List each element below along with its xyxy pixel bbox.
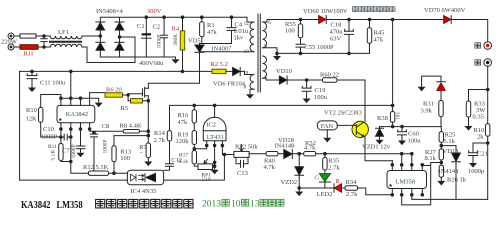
svg-text:C18: C18 [331, 22, 342, 29]
svg-text:220W: 220W [1, 39, 18, 46]
svg-text:1000P: 1000P [157, 34, 163, 48]
svg-text:IC4 4N35: IC4 4N35 [131, 188, 157, 195]
wire pin3 bottom rail [412, 195, 488, 200]
resistor R10 feedback [39, 107, 43, 122]
optocoupler IC4 4N35 [127, 170, 163, 184]
node 220V input terminal bottom [8, 44, 14, 50]
wire regulated node [380, 126, 442, 128]
ground primary [172, 57, 180, 64]
ground R26 [437, 179, 445, 186]
transistor VT2 [352, 121, 368, 137]
wire snubber bottom [200, 44, 232, 46]
resistor R33 [466, 101, 470, 117]
svg-text:400V68u: 400V68u [139, 60, 164, 67]
node 220V input terminal top [8, 33, 14, 39]
wire Vcc rail [20, 70, 212, 72]
svg-text:IC2: IC2 [206, 121, 216, 128]
svg-text:VD60 10W100V: VD60 10W100V [303, 8, 348, 15]
wire 300V bus to pin 12 [247, 17, 254, 22]
svg-text:63V: 63V [330, 36, 342, 43]
wire secondary top rail [267, 20, 488, 42]
svg-text:101: 101 [396, 112, 402, 121]
ground C60 [398, 138, 406, 145]
svg-text:R34: R34 [346, 179, 358, 186]
resistor R55 [300, 20, 302, 24]
diode bridge D2 [115, 21, 124, 23]
svg-text:LM358: LM358 [396, 179, 416, 186]
resistor R1 [201, 17, 203, 43]
resistor R45 [369, 20, 371, 28]
label chi chinese [475, 60, 481, 65]
svg-text:KA3842: KA3842 [21, 200, 51, 211]
wire Vcc riser to pin2 [70, 71, 72, 98]
caption date chinese yue [241, 199, 248, 206]
svg-text:120k: 120k [176, 138, 190, 145]
svg-text:LM358: LM358 [57, 200, 83, 211]
caption date chinese ri hui zhi [260, 199, 284, 206]
svg-text:G: G [315, 175, 320, 182]
wire VD10 to R60 [287, 79, 322, 81]
ground VZD2 [295, 189, 303, 196]
caption date chinese nian [222, 199, 229, 206]
ground VZD1 [376, 138, 384, 145]
pin KA3842 bottom pins [61, 123, 90, 129]
svg-text:VD6 FR104: VD6 FR104 [213, 81, 246, 88]
svg-text:100: 100 [285, 28, 295, 35]
diode bridge D4 [115, 41, 124, 43]
capacitor C8 [91, 133, 98, 175]
svg-text:4.7k: 4.7k [304, 145, 316, 152]
ground C19 [303, 96, 311, 103]
svg-text:1000P: 1000P [71, 144, 77, 158]
resistor R17 [193, 145, 195, 151]
svg-text:R17: R17 [179, 153, 188, 159]
svg-text:R4: R4 [172, 26, 180, 33]
ground R7 [144, 159, 152, 166]
wire gate node [123, 94, 129, 101]
svg-text:9: 9 [246, 70, 249, 76]
resistor R13 [113, 136, 115, 146]
svg-text:R11: R11 [48, 144, 57, 150]
potentiometer RP2 [234, 151, 249, 157]
resistor R7 [147, 131, 149, 143]
svg-text:12K: 12K [26, 116, 38, 123]
svg-text:IN4007: IN4007 [212, 45, 233, 52]
diode VD5 [195, 44, 204, 46]
wire LF1 to bridge AC2 [82, 37, 135, 63]
wire TL431 anode to ground [214, 146, 216, 168]
svg-text:4.7k: 4.7k [264, 164, 276, 171]
svg-text:R26 1k: R26 1k [447, 177, 467, 184]
svg-text:5.1K: 5.1K [51, 150, 57, 161]
wire pin4 to R8 row [90, 129, 124, 131]
svg-text:1000P: 1000P [41, 134, 58, 141]
op-amp U3 LM358 box [387, 171, 427, 189]
ground R33 [465, 124, 473, 131]
svg-text:C8: C8 [102, 123, 110, 130]
ground transformer pin 8 [246, 92, 254, 99]
wire R33 branch [469, 90, 488, 102]
node battery negative terminal [484, 59, 492, 67]
inductor LF1 core [50, 41, 81, 43]
ground C21 [469, 161, 477, 168]
wire B+ riser [392, 20, 394, 112]
resistor R14 [167, 131, 171, 141]
svg-text:C10: C10 [43, 126, 54, 133]
svg-text:IN5408×4: IN5408×4 [96, 8, 124, 15]
svg-text:C13: C13 [237, 170, 248, 177]
ground C7 [77, 151, 85, 158]
ground FAN [323, 136, 331, 143]
fuse F1 [20, 34, 36, 38]
svg-text:2.7k: 2.7k [154, 137, 166, 144]
capacitor C7 [76, 129, 85, 151]
wire C21 branch [473, 143, 488, 152]
svg-text:2.7k: 2.7k [328, 164, 340, 171]
wire secondary ground rail [277, 52, 370, 54]
wire pin 6 to secondary top rail [263, 20, 268, 23]
resistor R12 [89, 171, 109, 175]
resistor R26 [439, 165, 443, 177]
svg-text:5.1k: 5.1k [444, 138, 456, 145]
pin LM358 bottom pins [392, 189, 422, 195]
capacitor C60 [398, 127, 407, 139]
ground secondary [273, 54, 281, 61]
svg-text:8: 8 [244, 85, 247, 91]
svg-text:0.35: 0.35 [473, 114, 484, 121]
capacitor C12 [166, 164, 174, 167]
diode VD10 [279, 76, 286, 84]
svg-text:R: R [335, 178, 340, 185]
wire feedback node vertical x168 [164, 105, 393, 170]
capacitor C2 [161, 17, 168, 57]
capacitor C4 [227, 17, 236, 43]
wire input top [14, 35, 47, 37]
capacitor X-cap across line [41, 36, 47, 47]
diode VD70 [444, 16, 451, 24]
diode VD6 [233, 68, 240, 76]
pin LM358 top pins [392, 154, 422, 171]
ground TL431 [211, 168, 219, 175]
svg-text:2.7k: 2.7k [346, 191, 358, 198]
wire R6 to gate node [123, 94, 129, 96]
capacitor C19 [302, 80, 311, 96]
capacitor C11 [27, 71, 37, 85]
wire bottom feedback rail [20, 155, 225, 181]
diode VD18 [284, 150, 292, 159]
wire R60 to VT2 collector [337, 80, 365, 121]
wire input bottom [14, 46, 47, 48]
svg-text:13: 13 [250, 200, 260, 210]
diode VD13 [441, 146, 456, 153]
ground C11 [28, 85, 36, 92]
resistor R5 [131, 99, 143, 103]
svg-text:VD70 6W400V: VD70 6W400V [424, 7, 466, 14]
svg-text:R8 4.4K: R8 4.4K [120, 122, 142, 129]
svg-text:470u: 470u [330, 29, 344, 36]
svg-text:VT2 2SC2383: VT2 2SC2383 [324, 109, 362, 116]
pin TL431 legs [207, 141, 223, 146]
resistor R40 [266, 152, 278, 156]
svg-text:8.1k: 8.1k [425, 155, 437, 162]
transistor Q1 MOSFET [128, 87, 148, 132]
resistor R60 [323, 78, 338, 82]
svg-text:LT431: LT431 [207, 134, 224, 141]
svg-text:C55 1000P: C55 1000P [305, 44, 334, 51]
svg-text:100u: 100u [408, 137, 422, 144]
svg-text:2013: 2013 [202, 200, 221, 210]
svg-text:9.1k: 9.1k [179, 159, 189, 165]
svg-text:300V: 300V [147, 8, 162, 15]
svg-text:LF1: LF1 [58, 29, 69, 36]
resistor R38 [390, 112, 394, 123]
svg-text:6: 6 [268, 20, 271, 26]
diode VZD2 zener [298, 154, 300, 167]
capacitor C55 [296, 38, 305, 54]
svg-text:VZD1 12v: VZD1 12v [362, 143, 391, 150]
wire bridge left bottom [99, 50, 101, 57]
svg-text:47k: 47k [207, 29, 218, 36]
resistor R34 [345, 186, 358, 190]
wire R12 row [71, 162, 89, 174]
resistor R27 [439, 149, 443, 160]
resistor RJ1 [20, 45, 38, 50]
capacitor C1 [145, 17, 147, 57]
capacitor C21 [469, 151, 478, 161]
capacitor C18 [345, 20, 354, 54]
resistor R4 [182, 17, 184, 71]
svg-text:3.9k: 3.9k [421, 108, 433, 115]
wire VD5 to pin10 and drain riser [148, 52, 254, 89]
svg-text:VZD2: VZD2 [281, 179, 298, 186]
inductor LF1 top winding [47, 36, 82, 39]
wire TL431 ref to divider [194, 146, 206, 149]
wire battery negative down [487, 66, 489, 123]
wire LED row [299, 187, 334, 189]
svg-text:360K: 360K [173, 34, 179, 46]
svg-text:12: 12 [244, 21, 250, 27]
svg-text:1000P: 1000P [102, 139, 108, 153]
wire pin 5 to ground node [263, 48, 278, 54]
wire bridge left mid [99, 30, 101, 42]
transformer T1 primary lower winding [250, 75, 254, 90]
resistor R8 [123, 130, 140, 134]
svg-text:1000p: 1000p [468, 168, 484, 175]
wire TL431 cathode riser [214, 105, 216, 117]
transformer T1 secondary lower winding [263, 56, 267, 78]
svg-text:100u: 100u [314, 94, 328, 101]
svg-text:C19: C19 [315, 87, 326, 94]
svg-text:100: 100 [120, 155, 130, 162]
diode bridge D1 [96, 21, 105, 23]
wire LF1 to bridge AC1 [82, 35, 100, 37]
resistor R10 secondary [486, 124, 490, 137]
svg-text:2k: 2k [477, 134, 484, 141]
transformer T1 core [258, 14, 260, 92]
svg-text:RJ1: RJ1 [24, 51, 34, 58]
transformer T1 secondary upper winding [263, 22, 267, 48]
svg-text:VD10: VD10 [276, 68, 292, 75]
resistor R31 [440, 90, 442, 100]
inductor LF1 bottom winding [47, 44, 82, 47]
capacitor C13 [236, 157, 248, 167]
svg-text:C21: C21 [477, 151, 488, 158]
diode VZD3 red zener [437, 83, 445, 90]
svg-text:R31: R31 [423, 101, 434, 108]
wire pin4 top loop [402, 163, 442, 205]
svg-text:R2 5.2: R2 5.2 [211, 61, 228, 68]
ground KA3842 pin [95, 100, 103, 107]
LED LED2 green [319, 174, 330, 182]
capacitor C10 [61, 129, 71, 140]
wire LED control rail [304, 153, 412, 155]
svg-text:5: 5 [264, 43, 267, 49]
wire pin2 column down [70, 129, 72, 162]
svg-text:47k: 47k [178, 119, 189, 126]
wire bridge top rail 300V [100, 17, 247, 22]
wire RP2 to R40 [249, 153, 266, 155]
svg-text:R10: R10 [26, 107, 37, 114]
wire R10 top [41, 95, 61, 108]
wire FAN to base [337, 124, 356, 126]
resistor R19 [193, 123, 195, 131]
svg-text:R5: R5 [121, 105, 129, 112]
svg-text:C1: C1 [137, 23, 145, 30]
svg-text:1kv: 1kv [234, 35, 245, 42]
svg-text:C2: C2 [153, 24, 161, 31]
svg-text:R12 5.1K: R12 5.1K [83, 164, 109, 171]
svg-text:VD5: VD5 [188, 38, 201, 45]
svg-text:510: 510 [202, 177, 211, 183]
diode VZD1 zener [376, 127, 384, 129]
op-amp U1 KA3842 box [57, 105, 95, 122]
wire pin-top rail [61, 98, 99, 100]
wire VT2 emitter [365, 137, 393, 161]
potentiometer RP1 [198, 164, 213, 170]
component FAN [317, 121, 337, 130]
svg-text:IN4148: IN4148 [439, 168, 459, 175]
resistor R52 [304, 152, 316, 156]
svg-text:FAN: FAN [321, 123, 334, 130]
svg-text:10: 10 [244, 49, 250, 55]
svg-text:C7: C7 [62, 147, 70, 154]
transformer T1 primary upper winding [250, 22, 254, 52]
wire FAN to ground [326, 130, 328, 136]
svg-text:C11 100u: C11 100u [40, 80, 66, 87]
svg-text:RP2 50k: RP2 50k [235, 143, 258, 150]
resistor R11 [60, 137, 62, 144]
pin KA3842 top pins [61, 93, 105, 106]
ground VZD3 [418, 85, 426, 92]
resistor R35 [324, 154, 326, 158]
label dian chinese [475, 43, 481, 48]
wire pin 8 to ground [250, 89, 254, 92]
resistor R2 [212, 69, 226, 73]
caption title chinese [96, 199, 193, 208]
wire pin 3 to VD10 [263, 78, 280, 80]
svg-text:IN4148: IN4148 [275, 143, 295, 150]
label fast recovery diode chinese [352, 7, 395, 12]
svg-text:R60 22: R60 22 [320, 71, 339, 78]
resistor R16 [193, 105, 195, 109]
resistor R25 [440, 127, 442, 132]
resistor R6 [105, 93, 123, 97]
svg-text:LED2: LED2 [317, 191, 333, 198]
wire TL431 cathode to RP2 [222, 146, 234, 155]
svg-text:R38: R38 [377, 115, 388, 122]
wire bridge right mid [119, 30, 121, 42]
wire R13 top line [114, 135, 148, 137]
svg-text:R45: R45 [374, 30, 385, 37]
svg-text:47k: 47k [374, 37, 385, 44]
node battery positive terminal [484, 42, 492, 50]
diode bridge D3 [96, 41, 105, 43]
op-amp U2 IC2 TL431 [203, 117, 226, 141]
diode VD60 [319, 16, 326, 24]
LED red [333, 184, 335, 192]
wire bridge bottom negative rail [100, 50, 175, 57]
svg-text:10: 10 [231, 200, 241, 210]
wire feedback left vertical [19, 71, 21, 180]
svg-text:KA3842: KA3842 [66, 111, 88, 118]
